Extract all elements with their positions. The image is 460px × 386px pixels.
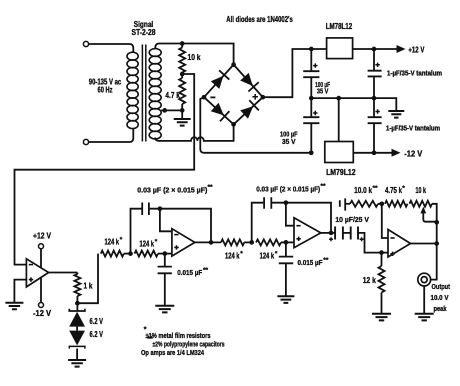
ground C6 xyxy=(155,306,174,313)
svg-text:0.015 µF: 0.015 µF xyxy=(177,268,202,277)
node C8 tap xyxy=(284,240,289,245)
node bridge right xyxy=(260,95,265,100)
svg-text:Output: Output xyxy=(432,282,451,291)
label Output 10.0 V peak xyxy=(431,282,451,313)
label C1 100uF 35V xyxy=(315,80,330,96)
svg-text:124 k: 124 k xyxy=(105,238,120,247)
wire secondary center tap xyxy=(161,109,182,111)
label R5 124 k xyxy=(140,239,158,249)
ground R11 xyxy=(372,314,391,321)
svg-text:**: ** xyxy=(373,185,379,192)
supply -12V terminal xyxy=(39,278,44,308)
label 90-135 V ac 60 Hz xyxy=(89,78,122,95)
label 10 k xyxy=(188,53,201,62)
diode D3 (bottom-left edge) xyxy=(211,103,230,122)
svg-text:*: * xyxy=(144,326,147,333)
label R8 10.0 k xyxy=(354,185,378,195)
svg-text:All diodes are 1N4002's: All diodes are 1N4002's xyxy=(226,15,293,24)
op-amp U1d xyxy=(388,230,411,258)
capacitor C3 1uF tantalum xyxy=(368,49,382,98)
output jack J3 xyxy=(418,273,431,286)
label 1 k xyxy=(84,282,93,291)
arrow +12 V output xyxy=(374,45,406,53)
svg-text:1-µF/35-V tantalum: 1-µF/35-V tantalum xyxy=(386,125,440,132)
node bridge left xyxy=(202,95,207,100)
node rail tantalum xyxy=(372,96,377,101)
regulator U2 LM78L12 xyxy=(327,38,353,59)
supply +12V terminal xyxy=(39,244,44,268)
label Signal ST-2-28 xyxy=(132,20,156,37)
svg-text:+12 V: +12 V xyxy=(33,231,52,240)
svg-text:124 k: 124 k xyxy=(225,251,240,260)
wire J1 to transformer primary top xyxy=(89,44,134,53)
ground U1a plus input xyxy=(5,303,23,310)
label bridge plus xyxy=(252,94,258,100)
svg-text:35 V: 35 V xyxy=(282,137,296,146)
node R2 bottom / tap junction xyxy=(180,108,185,113)
note 1% resistors xyxy=(144,326,211,340)
svg-text:**: ** xyxy=(321,183,327,190)
label D6 6.2 V xyxy=(90,330,104,339)
node U1b output xyxy=(209,240,214,245)
svg-text:12 k: 12 k xyxy=(363,276,376,285)
wire U1a output xyxy=(49,272,78,274)
wire bridge minus to negative rail xyxy=(200,97,311,153)
resistor R9 4.75k xyxy=(378,201,408,207)
label +12 V xyxy=(408,46,424,55)
capacitor C6 0.015uF to ground xyxy=(158,254,172,305)
svg-text:-12 V: -12 V xyxy=(33,309,52,318)
label C7 0.03uF xyxy=(256,183,326,193)
resistor R8 10.0k xyxy=(350,201,378,207)
wire divider tap to first op-amp xyxy=(15,74,195,265)
node rail C1 xyxy=(309,96,314,101)
wire zener node to 124k chain xyxy=(77,254,98,304)
ground zeners xyxy=(68,360,86,367)
label R11 12 k xyxy=(363,276,376,285)
wire jack sleeve to ground xyxy=(423,286,425,313)
svg-text:10.0 V: 10.0 V xyxy=(431,293,449,302)
AC input terminal J1 (hot) xyxy=(83,41,88,46)
diode D2 (top-right edge) xyxy=(240,73,259,92)
wire chain start xyxy=(0,0,1,1)
resistor R4 124k xyxy=(101,251,124,257)
capacitor C11 (input coupling) xyxy=(340,198,350,210)
label C8 0.015uF xyxy=(298,257,329,267)
svg-text:ST-2-28: ST-2-28 xyxy=(132,28,156,37)
diode D4 (bottom-right edge) xyxy=(240,100,259,119)
node center tap xyxy=(162,108,167,113)
svg-text:10.0 k: 10.0 k xyxy=(354,186,372,195)
wire J2 to transformer primary bottom xyxy=(89,128,134,142)
svg-text:124 k: 124 k xyxy=(140,240,155,249)
ground C8 xyxy=(277,296,294,303)
node Y filter node xyxy=(249,240,254,245)
resistor R2 4.7k xyxy=(179,74,185,110)
wire U1c minus feedback xyxy=(286,203,294,226)
ground transformer tap xyxy=(174,110,191,125)
regulator U3 LM79L12 xyxy=(325,142,354,163)
node C6 tap xyxy=(162,251,167,256)
svg-text:Op amps are 1/4 LM324: Op amps are 1/4 LM324 xyxy=(141,348,205,357)
label C3 tantalum xyxy=(387,70,442,77)
node U1c output feedback tap xyxy=(329,231,334,236)
node R1/R2 junction xyxy=(180,72,185,77)
transformer T1 primary winding xyxy=(127,52,138,128)
svg-text:LM79L12: LM79L12 xyxy=(326,168,356,177)
wire U1d output xyxy=(411,243,437,245)
capacitor C8 0.015uF to ground xyxy=(279,242,293,295)
label R7 124 k xyxy=(260,250,278,260)
svg-text:124 k: 124 k xyxy=(260,251,275,260)
label D5 6.2 V xyxy=(90,317,104,326)
wire feedback to output xyxy=(436,222,438,243)
label R6 124 k xyxy=(225,250,243,260)
label R9 4.75 k xyxy=(385,185,405,195)
wire secondary top to +rail xyxy=(155,44,159,49)
node +12V cap junction xyxy=(372,47,377,52)
svg-text:35 V: 35 V xyxy=(317,87,329,96)
diode D1 (top-left edge) xyxy=(211,70,230,89)
wire output to jack xyxy=(431,244,437,280)
capacitor C5 0.03uF feedback xyxy=(131,203,212,254)
svg-text:+12 V: +12 V xyxy=(408,46,424,55)
node U1d output xyxy=(434,241,439,246)
wire U1b output xyxy=(195,241,221,243)
svg-text:10 k: 10 k xyxy=(188,53,201,62)
resistor R5 124k xyxy=(124,251,172,257)
wire U1b minus feedback xyxy=(160,209,172,232)
svg-text:10 µF/25 V: 10 µF/25 V xyxy=(335,215,369,224)
wire U1d minus input xyxy=(382,204,388,238)
svg-text:4.7 k: 4.7 k xyxy=(165,91,180,100)
label C9 C10 10uF/25V xyxy=(335,215,369,224)
wire secondary bottom to bridge (with crossovers) xyxy=(155,126,233,140)
transformer T1 core xyxy=(142,45,145,142)
node C7 feedback tap xyxy=(284,200,289,205)
svg-text:0.03 µF (2 × 0.015 µF): 0.03 µF (2 × 0.015 µF) xyxy=(137,185,207,194)
ground power supply common xyxy=(388,111,404,118)
pot R10 wiper arrow xyxy=(420,207,436,222)
note 2% capacitors xyxy=(147,336,224,348)
arrow -12 V output xyxy=(374,149,401,157)
svg-text:LM78L12: LM78L12 xyxy=(326,22,353,31)
label C4 tantalum xyxy=(386,125,440,132)
note op amps xyxy=(141,348,205,357)
svg-text:6.2 V: 6.2 V xyxy=(90,317,104,326)
node secondary-top / 10k junction xyxy=(180,41,185,46)
label -12 V supply xyxy=(33,309,52,318)
node wiper/feedback junction xyxy=(434,220,439,225)
svg-text:**: ** xyxy=(203,267,209,274)
svg-text:**: ** xyxy=(208,184,214,191)
label +12 V supply xyxy=(33,231,52,240)
label bridge minus xyxy=(210,96,215,98)
label R4 124 k xyxy=(105,237,123,247)
node bridge top xyxy=(231,62,236,67)
capacitor C7 0.03uF feedback xyxy=(252,197,331,242)
capacitor C2 100uF/35V xyxy=(303,98,319,153)
wire LM79L12 output xyxy=(353,152,374,154)
potentiometer R10 10k xyxy=(410,201,437,223)
op-amp U1a xyxy=(26,259,48,287)
op-amp U1b xyxy=(172,229,195,256)
capacitor C4 1uF tantalum xyxy=(368,98,382,153)
label LM78L12 xyxy=(326,22,353,31)
AC input terminal J2 (neutral) xyxy=(83,139,88,144)
svg-text:4.75 k: 4.75 k xyxy=(385,186,402,195)
node U1d plus input / 12k xyxy=(379,250,384,255)
bridge rectifier outline xyxy=(204,65,263,125)
wire bridge plus to LM78L12 input xyxy=(263,49,327,97)
svg-text:1 k: 1 k xyxy=(84,282,93,291)
transformer T1 secondary winding xyxy=(149,49,161,139)
node zener junction xyxy=(75,301,80,306)
resistor R11 12k xyxy=(379,253,385,313)
node C1 input junction xyxy=(309,47,314,52)
label -12 V xyxy=(404,149,423,158)
node bridge bottom xyxy=(231,122,236,127)
wire top rail to bridge top xyxy=(159,44,234,63)
resistor R3 1k xyxy=(74,273,80,304)
node -12V cap junction xyxy=(372,150,377,155)
wire U1c output xyxy=(321,232,335,234)
label 4.7 k xyxy=(165,91,180,100)
label C6 0.015uF xyxy=(177,267,208,277)
node rail 79L12 xyxy=(336,96,341,101)
svg-text:1-µF/35-V tantalum: 1-µF/35-V tantalum xyxy=(387,70,442,77)
label C5 0.03uF xyxy=(137,184,213,194)
label C2 100uF 35V xyxy=(280,130,298,146)
svg-text:0.015 µF: 0.015 µF xyxy=(298,258,323,267)
svg-text:peak: peak xyxy=(434,304,448,313)
zener D6 6.2V xyxy=(69,327,85,360)
svg-text:**: ** xyxy=(323,257,329,264)
op-amp U1c xyxy=(294,218,321,248)
capacitor C9 C10 10uF/25V series xyxy=(329,227,388,253)
zener D5 6.2V xyxy=(69,303,85,326)
resistor R7 124k xyxy=(244,239,294,245)
ground output jack xyxy=(415,314,434,321)
resistor R1 10k xyxy=(179,44,185,75)
svg-text:60 Hz: 60 Hz xyxy=(98,86,113,95)
svg-text:6.2 V: 6.2 V xyxy=(90,330,104,339)
wire ground rail xyxy=(311,98,396,110)
node C5 feedback tap xyxy=(158,206,163,211)
node -rail C2 xyxy=(309,150,314,155)
label R10 10 k xyxy=(416,186,427,195)
svg-text:10 k: 10 k xyxy=(416,186,427,195)
node X filter node xyxy=(128,251,133,256)
capacitor C1 100uF/35V xyxy=(303,49,319,98)
svg-text:0.03 µF (2 × 0.015 µF): 0.03 µF (2 × 0.015 µF) xyxy=(256,184,320,193)
wire rail to LM79L12 ground pin xyxy=(338,98,340,141)
wire U1a plus input to ground xyxy=(14,280,26,302)
label all diodes xyxy=(226,15,293,24)
svg-text:-12 V: -12 V xyxy=(404,149,423,158)
resistor R6 124k xyxy=(221,239,244,245)
svg-text:**: ** xyxy=(147,336,153,343)
label LM79L12 xyxy=(326,168,356,177)
node R8/R9 junction xyxy=(379,201,384,206)
wire LM78L12 output xyxy=(353,48,374,50)
